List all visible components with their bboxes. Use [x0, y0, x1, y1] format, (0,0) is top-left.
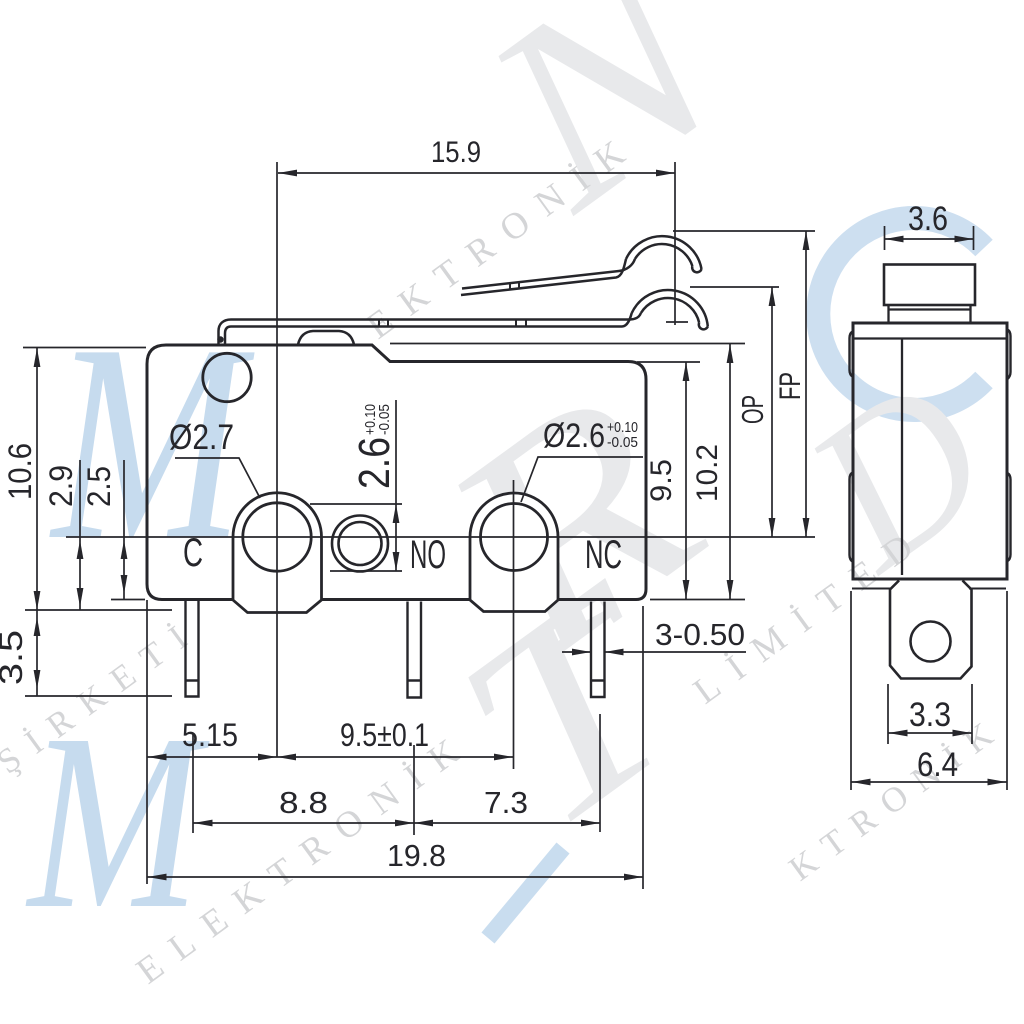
svg-text:9.5: 9.5	[645, 459, 678, 502]
dimension line 15.9	[278, 172, 675, 174]
svg-text:10.2: 10.2	[691, 444, 724, 502]
lever curl FP tip cap	[692, 266, 701, 272]
centerline vertical through C hole and 15.9 extension	[276, 162, 278, 757]
dimension line 9.5	[685, 362, 687, 599]
dimension line 19.8	[147, 876, 643, 878]
dimension line 2.9	[79, 460, 81, 610]
extension tick body step right	[637, 361, 700, 363]
svg-text:3.6: 3.6	[908, 200, 948, 238]
svg-text:Ø2.7: Ø2.7	[169, 418, 234, 457]
dimension line 3.3	[888, 732, 972, 734]
side body bottom thin ledge	[852, 588, 1006, 590]
side clip tab upper left	[850, 332, 854, 378]
svg-text:NC: NC	[585, 533, 622, 577]
pin NC	[591, 602, 605, 698]
lever free position bottom edge	[461, 259, 626, 295]
side clip tab upper right	[1007, 330, 1011, 380]
extension tick FP level	[673, 230, 815, 232]
extension lines 6.4	[851, 591, 1007, 790]
svg-text:19.8: 19.8	[387, 838, 446, 873]
svg-text:2.5: 2.5	[81, 466, 117, 507]
watermark blue diagonal stroke bottom middle	[488, 848, 563, 938]
lever hinge left end	[219, 320, 232, 345]
svg-text:-0.05: -0.05	[376, 404, 393, 435]
extension lines 3.3	[888, 684, 972, 744]
svg-text:5.15: 5.15	[182, 717, 238, 753]
lever curl OP tip cap	[699, 323, 708, 330]
lever free position top edge	[462, 259, 635, 289]
centerline vertical through NC hole	[513, 480, 515, 769]
lever arm rest position bottom edge	[231, 313, 632, 326]
dimension line FP	[805, 231, 807, 537]
dimension line 2.5	[123, 460, 125, 599]
svg-text:3.5: 3.5	[0, 630, 29, 685]
side body top seam line	[853, 337, 1007, 339]
mounting hole top-left	[203, 353, 251, 401]
extension ticks 3.6	[885, 226, 974, 250]
svg-text:10.6: 10.6	[2, 443, 38, 500]
extension tick 2.6 bottom	[330, 570, 402, 572]
extension tick body bottom right	[650, 599, 745, 601]
extension line NO pin center	[413, 745, 415, 835]
svg-text:Ø2.6: Ø2.6	[543, 417, 605, 455]
lever arm rest position top edge	[231, 313, 641, 320]
svg-text:OP: OP	[735, 395, 770, 424]
lever curl FP inner	[635, 244, 693, 266]
watermark blue letter C ring right	[818, 218, 984, 410]
plunger dome on body top	[298, 331, 354, 345]
dimension line 5.15 and 9.5 bottom	[147, 756, 513, 758]
side plunger collar	[889, 305, 971, 323]
svg-text:3-0.50: 3-0.50	[655, 617, 745, 652]
pin NO	[408, 602, 422, 698]
svg-text:6.4: 6.4	[917, 746, 958, 784]
dimension line 6.4	[851, 781, 1007, 783]
svg-text:C: C	[183, 531, 203, 575]
svg-text:-0.05: -0.05	[607, 434, 638, 451]
leader line dia 2.6	[521, 457, 643, 502]
dimension text 2.6 with tolerance rotated	[350, 404, 399, 489]
svg-text:FP: FP	[774, 372, 807, 400]
dimension line 3.5	[36, 610, 38, 696]
terminal hole NO outer	[332, 516, 388, 572]
side body outline	[853, 323, 1007, 579]
lever curl OP inner	[641, 298, 699, 323]
lever free position ticks	[510, 282, 519, 289]
pin C	[186, 601, 199, 697]
terminal hole C	[243, 503, 311, 571]
extension line NC pin center	[599, 714, 601, 832]
terminal hole NO inner	[339, 522, 382, 565]
extension tick body top left	[23, 347, 146, 349]
dimension 3-0.50 arrows at NC pin	[562, 651, 746, 653]
extension tick body bottom small	[111, 599, 145, 601]
tick crossing 15.9 extension at lever	[666, 321, 688, 323]
side clip tab lower right	[1007, 473, 1011, 562]
side clip tab lower left	[850, 473, 854, 563]
svg-text:2.6: 2.6	[350, 437, 399, 489]
dimension line 8.8 and 7.3	[193, 822, 600, 824]
dimension line OP	[771, 287, 773, 537]
switch body outline	[147, 345, 646, 600]
terminal lobe C	[233, 493, 322, 613]
lever hinge end blob	[217, 336, 223, 342]
side body center parting line	[901, 339, 903, 576]
dimension line 10.6	[36, 348, 38, 610]
lever curl FP outer	[626, 236, 702, 269]
extension line C pin center	[192, 734, 194, 833]
svg-text:NO: NO	[410, 533, 446, 577]
svg-text:3.3: 3.3	[909, 696, 951, 734]
side plunger button	[884, 265, 975, 306]
svg-text:2.9: 2.9	[43, 465, 79, 507]
svg-text:15.9: 15.9	[431, 136, 481, 169]
extension line body left down	[146, 600, 148, 884]
side terminal hole	[911, 622, 951, 662]
svg-text:7.3: 7.3	[484, 785, 528, 820]
extension tick OP level	[690, 286, 779, 288]
extension line body right down	[642, 606, 644, 889]
svg-text:8.8: 8.8	[279, 785, 328, 820]
svg-text:9.5±0.1: 9.5±0.1	[340, 717, 429, 753]
extension line body top level right	[390, 343, 745, 345]
dimension line 10.2	[729, 344, 731, 599]
extension tick 2.6 top	[310, 503, 402, 505]
lever arm segment ticks	[379, 320, 526, 327]
centerline horizontal through terminal holes	[66, 536, 815, 538]
extension tick pin bottom left	[25, 695, 172, 697]
dimension line 3.6	[885, 238, 974, 240]
terminal hole NC	[481, 504, 548, 571]
dimension line 2.6 vertical	[395, 400, 397, 571]
side terminal block	[890, 581, 972, 679]
leader line dia 2.7	[175, 458, 260, 498]
extension tick lobe bottom left	[25, 609, 172, 611]
terminal lobe NC	[470, 493, 558, 612]
extension line right for 15.9	[674, 162, 676, 325]
lever curl OP outer	[632, 290, 708, 326]
